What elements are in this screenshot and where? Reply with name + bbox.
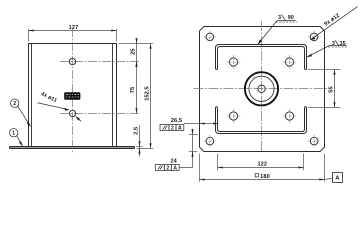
corner hole TL [204,31,216,43]
svg-text:122: 122 [257,162,267,168]
balloon 2 [11,99,19,107]
leader note 4x dia 11 [38,103,69,110]
extension line: column top edge to right [119,43,153,45]
svg-text:2: 2 [13,101,16,107]
horizontal centerline through hole H1 [60,61,139,63]
horizontal centerline of plate [194,88,330,90]
horizontal centerline through hole H2 [60,113,139,115]
dimension 127 arrows [29,29,34,31]
column inner flange edges [32,44,113,147]
plate outline with corner chamfers [200,27,325,152]
FCF parallelism 2 A [155,165,179,171]
svg-text:1: 1 [12,131,15,137]
dimension 25 [136,38,138,67]
balloon 1 [10,129,18,137]
center tube inner circle [249,76,274,101]
svg-text:90: 90 [288,15,294,21]
svg-text:A: A [178,126,182,132]
svg-text:127: 127 [69,25,79,31]
corner hole BR [308,135,320,147]
center tube outer circle [245,72,278,105]
hole H2 [69,110,75,116]
dimension 55 extension lines [308,69,340,71]
extension line web outer face [189,134,198,136]
corner hole TR [308,31,320,43]
dimension square-180 [200,179,325,181]
svg-text:152,5: 152,5 [145,86,151,101]
dimension 127 line [29,30,117,32]
svg-text:35: 35 [339,41,345,47]
svg-text:2,5: 2,5 [134,127,140,135]
mid hole lower-right [283,109,297,123]
dimension 24 with FCF [155,129,198,172]
balloon 2 leader [18,106,31,126]
dimension 75 [136,62,138,114]
vertical centerline of column [72,28,74,152]
center hole [258,85,265,92]
balloon 1 leader [17,136,23,146]
leader and vertical dimension line for 24 [179,167,192,169]
note 3\90 [258,15,298,45]
bottom hat profile (column section lower) [216,107,307,134]
svg-text:A: A [335,176,339,182]
svg-text:A: A [173,166,177,172]
svg-text:25: 25 [130,48,136,54]
base plate bar (part 1, side view) [10,146,135,149]
dimension 122 [218,167,304,169]
dimension 55 [334,70,336,108]
note 9x dia 12 [310,7,358,41]
extension line: bar bottom to right [137,148,154,150]
dimension 2,5 [139,125,141,156]
svg-text:75: 75 [130,87,136,93]
datum A flag [325,178,332,180]
dimension 26,5 with FCF [160,118,219,132]
extension line plate bottom [189,151,198,153]
extension line: bar top to right [136,146,142,148]
vertical centerline of plate [261,21,263,152]
hole H1 [69,58,75,64]
svg-text:2: 2 [171,126,174,132]
top hat profile (column section upper) [216,45,307,70]
dimension 127 extension lines [29,29,117,42]
FCF parallelism 2 A [160,125,184,131]
mid hole upper-right [283,55,297,69]
product label (black) [64,92,80,100]
dimension 122 extension lines [217,154,219,171]
mid hole upper-left [227,55,241,69]
svg-text:55: 55 [329,86,335,92]
corner hole BL [204,135,216,147]
mid hole lower-left [227,109,241,123]
column outline (part 2) [28,44,117,147]
svg-text:24: 24 [170,158,177,164]
dimension 152,5 [150,44,152,149]
svg-text:180: 180 [260,174,270,180]
note 3\35 [307,40,349,57]
svg-text:3: 3 [332,41,335,47]
svg-text:26,5: 26,5 [171,118,182,124]
svg-text:2: 2 [166,166,169,172]
dimension square-180 extension lines [199,154,201,182]
